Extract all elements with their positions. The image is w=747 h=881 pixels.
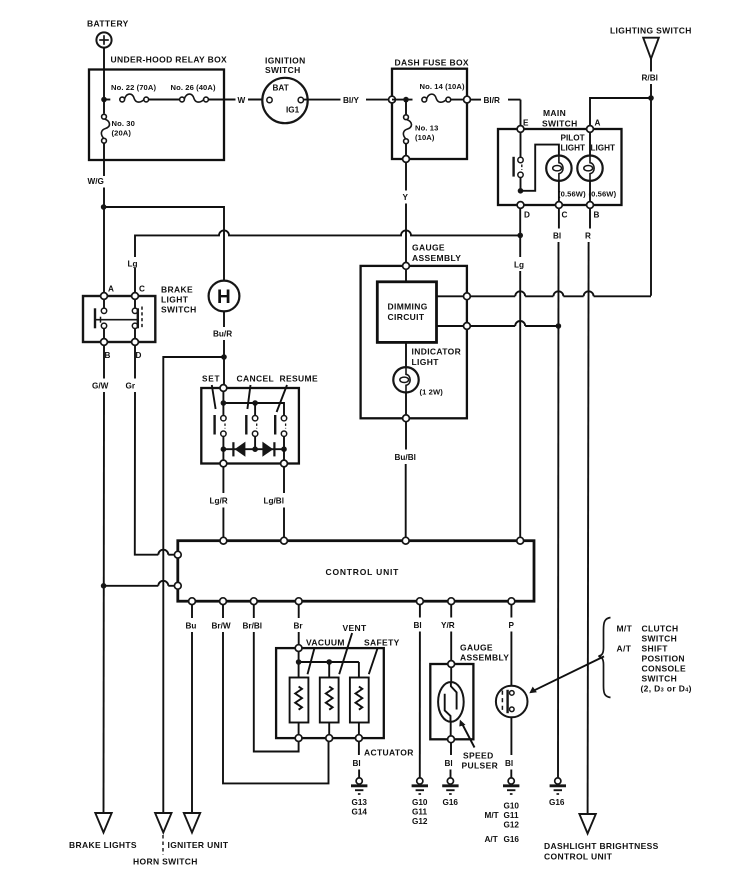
svg-text:C: C bbox=[562, 211, 568, 220]
wire fuse22 to fuse26 bbox=[149, 99, 180, 101]
svg-text:SWITCH: SWITCH bbox=[642, 674, 678, 684]
svg-text:Bu/Bl: Bu/Bl bbox=[395, 453, 416, 462]
terminal brake B bbox=[101, 339, 108, 346]
label VENT with leader bbox=[339, 623, 367, 674]
terminal control unit bottom P bbox=[508, 598, 515, 605]
svg-text:Y: Y bbox=[403, 193, 409, 202]
svg-text:DASH FUSE BOX: DASH FUSE BOX bbox=[395, 58, 469, 68]
svg-text:G12: G12 bbox=[412, 817, 428, 826]
svg-text:Br/W: Br/W bbox=[212, 622, 231, 631]
svg-text:B: B bbox=[105, 351, 111, 360]
wire set dot to bottom terminal bbox=[222, 449, 224, 463]
svg-text:G10: G10 bbox=[412, 798, 428, 807]
svg-text:CIRCUIT: CIRCUIT bbox=[388, 312, 425, 322]
terminal control unit top Lg/Bl bbox=[281, 537, 288, 544]
svg-text:No. 14 (10A): No. 14 (10A) bbox=[420, 82, 465, 91]
svg-text:Br/Bl: Br/Bl bbox=[243, 622, 263, 631]
svg-text:H: H bbox=[217, 287, 231, 308]
svg-text:GAUGE: GAUGE bbox=[460, 643, 493, 653]
terminal D bbox=[517, 202, 524, 209]
terminal control unit bottom Y/R bbox=[448, 598, 455, 605]
wire resume dot to bottom terminal bbox=[283, 449, 285, 463]
wire Bu to igniter unit bbox=[186, 605, 197, 814]
svg-text:ASSEMBLY: ASSEMBLY bbox=[460, 653, 509, 663]
svg-text:G14: G14 bbox=[352, 808, 368, 817]
svg-text:CANCEL: CANCEL bbox=[237, 374, 275, 384]
svg-text:LIGHT: LIGHT bbox=[161, 295, 189, 305]
node fuse13/14 junction bbox=[403, 97, 409, 103]
diode bus wire bbox=[223, 448, 284, 450]
node Bu/R junction to horn switch line bbox=[221, 354, 227, 360]
ground G10 G11 G12 (control unit Bl) bbox=[412, 778, 428, 826]
vent solenoid coil bbox=[320, 678, 339, 739]
svg-text:LIGHT: LIGHT bbox=[412, 357, 440, 367]
node Bl junction with dimmer wire bbox=[556, 323, 562, 329]
leader SET bbox=[212, 385, 216, 409]
brake light switch link bar bbox=[95, 319, 138, 321]
CANCEL contact bbox=[246, 403, 258, 449]
wire indicator bulb to bottom terminal bbox=[405, 393, 407, 419]
svg-text:BRAKE: BRAKE bbox=[161, 285, 193, 295]
svg-text:UNDER-HOOD RELAY BOX: UNDER-HOOD RELAY BOX bbox=[111, 55, 228, 65]
svg-text:A: A bbox=[108, 285, 114, 294]
control unit box bbox=[178, 541, 534, 602]
dash fuse box bbox=[392, 58, 469, 160]
wire Br/Bl to actuator vacuum valve bbox=[243, 605, 299, 752]
wire Bl clutch switch to ground bbox=[505, 717, 513, 778]
svg-text:CONSOLE: CONSOLE bbox=[642, 664, 686, 674]
wire Bl speed pulser to ground G16 bbox=[445, 743, 453, 778]
brace for clutch/shift switch note bbox=[599, 618, 611, 698]
svg-text:G12: G12 bbox=[504, 821, 520, 830]
main switch box bbox=[498, 108, 622, 220]
terminal IG1 bbox=[298, 97, 303, 102]
terminal B bbox=[587, 202, 594, 209]
terminal gauge assembly top bbox=[403, 263, 410, 270]
terminal control unit bottom Bu bbox=[189, 598, 196, 605]
terminal control unit top Lg bbox=[517, 537, 524, 544]
terminal dash fuse box right bbox=[464, 96, 471, 103]
node G/W junction to control unit bbox=[101, 583, 107, 589]
light bulb (0.56W) bbox=[577, 129, 616, 199]
brake light switch bbox=[83, 285, 197, 361]
wire to fuse 14 bbox=[392, 99, 413, 101]
svg-text:Bl: Bl bbox=[553, 232, 561, 241]
brake light switch internal A-B contact bbox=[95, 296, 107, 342]
wire horn feed from W/G line bbox=[104, 207, 224, 281]
wire battery to relay box feed bbox=[103, 48, 105, 100]
terminal gauge assembly bottom bbox=[403, 415, 410, 422]
gauge assembly box (speed pulser) bbox=[430, 643, 509, 740]
node actuator bus vacuum bbox=[296, 659, 302, 665]
terminal cruise bottom left bbox=[220, 460, 227, 467]
svg-text:Lg: Lg bbox=[128, 260, 138, 269]
svg-text:RESUME: RESUME bbox=[280, 374, 318, 384]
svg-text:A: A bbox=[595, 119, 601, 128]
svg-text:G11: G11 bbox=[504, 811, 519, 820]
wire junction to main switch A bbox=[590, 98, 651, 126]
diode D2 bbox=[262, 442, 274, 457]
wire Bl safety coil to ground G13/G14 bbox=[353, 742, 361, 778]
wire Br/W to actuator vent valve bbox=[212, 605, 329, 784]
svg-text:No. 30: No. 30 bbox=[112, 119, 135, 128]
terminal control unit left Gr bbox=[174, 551, 181, 558]
node battery feed junction bbox=[101, 97, 107, 103]
terminal control unit top Bu/Bl bbox=[402, 537, 409, 544]
node R/Bl junction to A bbox=[648, 95, 654, 101]
leader arrow brace to clutch switch bbox=[529, 656, 604, 693]
svg-text:D: D bbox=[136, 351, 142, 360]
svg-text:BAT: BAT bbox=[273, 84, 289, 93]
svg-text:SWITCH: SWITCH bbox=[161, 305, 197, 315]
wire Lg/R cruise to control unit bbox=[210, 467, 228, 541]
terminal E bbox=[517, 126, 524, 133]
terminal dash fuse box bottom bbox=[403, 156, 410, 163]
terminal cruise switch top bbox=[220, 385, 227, 392]
fuse No.13 (10A) bbox=[403, 100, 438, 159]
svg-text:SWITCH: SWITCH bbox=[542, 119, 578, 129]
terminal control unit left G/W bbox=[174, 582, 181, 589]
clutch switch / shift position switch circle bbox=[496, 686, 528, 718]
svg-text:M/T: M/T bbox=[485, 811, 499, 820]
svg-text:LIGHTING SWITCH: LIGHTING SWITCH bbox=[610, 26, 692, 36]
pilot light bulb (0.56W) bbox=[546, 134, 586, 199]
label SPEED PULSER with arrow leader bbox=[459, 720, 498, 771]
svg-text:VENT: VENT bbox=[343, 623, 368, 633]
node diode bus resume bbox=[281, 446, 287, 452]
terminal brake D bbox=[132, 339, 139, 346]
svg-text:G16: G16 bbox=[504, 835, 520, 844]
safety solenoid coil bbox=[350, 678, 369, 739]
wire internal junction to pilot bulb bbox=[521, 145, 559, 191]
svg-text:SPEED: SPEED bbox=[463, 751, 494, 761]
terminal C bbox=[556, 202, 563, 209]
svg-text:Lg: Lg bbox=[514, 261, 524, 270]
terminal cruise bottom right bbox=[281, 460, 288, 467]
svg-text:LIGHT: LIGHT bbox=[591, 144, 616, 153]
svg-text:Bl: Bl bbox=[505, 759, 513, 768]
svg-text:PILOT: PILOT bbox=[561, 134, 585, 143]
wire dimmer out 2 to Bl junction with hop bbox=[470, 321, 558, 326]
fuse No.14 (10A) bbox=[420, 82, 465, 102]
leader CANCEL bbox=[247, 385, 250, 409]
svg-text:R: R bbox=[585, 232, 591, 241]
wire fuse14 to right edge bbox=[451, 99, 467, 101]
gauge assembly box (instrument cluster) bbox=[361, 243, 467, 419]
actuator internal bus bbox=[299, 652, 359, 678]
svg-text:LIGHT: LIGHT bbox=[561, 144, 586, 153]
svg-text:No. 13: No. 13 bbox=[415, 124, 438, 133]
wire Gr brake switch D down to control unit bbox=[126, 345, 178, 554]
ground G16 (main switch Bl) bbox=[549, 778, 566, 807]
note text M/T clutch switch A/T shift position console switch bbox=[617, 624, 692, 694]
svg-text:Bl: Bl bbox=[353, 759, 361, 768]
svg-text:E: E bbox=[523, 119, 529, 128]
vacuum solenoid coil bbox=[290, 678, 309, 739]
svg-text:P: P bbox=[509, 621, 515, 630]
node bus cancel bbox=[252, 400, 258, 406]
terminal actuator bottom safety bbox=[356, 735, 363, 742]
terminal dash fuse box left bbox=[389, 96, 396, 103]
ground G13 G14 bbox=[351, 778, 367, 817]
ground G10 G11 G12 / G16 (clutch switch) bbox=[485, 778, 520, 844]
lighting switch bbox=[610, 26, 692, 59]
diode D1 bbox=[233, 442, 245, 457]
svg-text:C: C bbox=[139, 285, 145, 294]
label Lg on brake switch drop bbox=[126, 257, 143, 269]
terminal speed pulser top bbox=[448, 661, 455, 668]
svg-text:MAIN: MAIN bbox=[543, 108, 566, 118]
svg-text:DIMMING: DIMMING bbox=[388, 302, 428, 312]
svg-text:IG1: IG1 bbox=[286, 106, 300, 115]
svg-text:POSITION: POSITION bbox=[642, 654, 685, 664]
node diode bus set bbox=[221, 446, 227, 452]
terminal brake C bbox=[132, 293, 139, 300]
wire dimming to indicator bulb bbox=[405, 342, 407, 367]
wire Br to actuator bbox=[294, 605, 304, 646]
svg-text:CONTROL UNIT: CONTROL UNIT bbox=[544, 852, 613, 862]
svg-text:G13: G13 bbox=[352, 798, 368, 807]
wire Lg from D down to control unit bbox=[514, 208, 524, 540]
wire top terminal to internal bus bbox=[222, 391, 224, 403]
dimming circuit box bbox=[377, 282, 436, 343]
horn symbol H bbox=[209, 281, 240, 312]
svg-text:Br: Br bbox=[294, 622, 304, 631]
svg-text:Bl/Y: Bl/Y bbox=[343, 96, 359, 105]
ignition switch IG1 bbox=[262, 56, 307, 124]
wire Y terminal into dimming circuit bbox=[405, 266, 407, 282]
wire Bu/R horn to cruise switch bbox=[213, 311, 232, 388]
terminal actuator bottom vent bbox=[326, 735, 333, 742]
svg-text:SAFETY: SAFETY bbox=[364, 638, 400, 648]
wire W/G relay box down to brake light switch A bbox=[88, 143, 105, 293]
svg-text:(0.56W): (0.56W) bbox=[589, 190, 617, 199]
terminal BAT bbox=[267, 97, 272, 102]
svg-text:(2, D3 or D4): (2, D3 or D4) bbox=[641, 684, 692, 694]
svg-text:Gr: Gr bbox=[126, 382, 136, 391]
svg-text:GAUGE: GAUGE bbox=[412, 243, 445, 253]
under-hood relay box bbox=[89, 55, 227, 161]
svg-text:G16: G16 bbox=[549, 798, 565, 807]
node D junction with Lg rail bbox=[517, 233, 523, 239]
terminal control unit bottom Br/Bl bbox=[250, 598, 257, 605]
svg-text:Bu: Bu bbox=[186, 622, 197, 631]
wire dimmer output 2 to gauge edge bbox=[437, 325, 467, 327]
svg-text:ACTUATOR: ACTUATOR bbox=[364, 748, 414, 758]
brake light switch internal C-D contact bbox=[132, 296, 142, 342]
arrow brake lights bbox=[69, 813, 137, 850]
wire P to clutch switch bbox=[509, 605, 515, 686]
wire R from B down to dashlight brightness control unit bbox=[585, 208, 591, 814]
svg-text:BRAKE LIGHTS: BRAKE LIGHTS bbox=[69, 840, 137, 850]
terminal control unit bottom Br/W bbox=[220, 598, 227, 605]
svg-text:CLUTCH: CLUTCH bbox=[642, 624, 679, 634]
wire dimmer output 1 to gauge edge bbox=[437, 295, 467, 297]
wire G/W junction to control unit left bbox=[104, 581, 178, 586]
wire junction to fuse 22 bbox=[104, 99, 110, 101]
svg-text:Bl: Bl bbox=[414, 621, 422, 630]
svg-text:VACUUM: VACUUM bbox=[306, 638, 345, 648]
main switch internal contact set bbox=[514, 129, 524, 191]
leader RESUME bbox=[277, 385, 287, 412]
wire junction to horn switch drop bbox=[163, 357, 224, 813]
arrow horn switch bbox=[133, 813, 198, 867]
node W/G to horn feed bbox=[101, 204, 107, 210]
svg-text:HORN SWITCH: HORN SWITCH bbox=[133, 857, 198, 867]
svg-text:No. 26 (40A): No. 26 (40A) bbox=[171, 83, 216, 92]
wire Y/R to speed pulser bbox=[441, 605, 455, 665]
actuator box bbox=[276, 648, 414, 757]
wire Bl/R dash fuse to main switch E bbox=[470, 96, 520, 126]
node bus set bbox=[221, 400, 227, 406]
node diode bus cancel bbox=[252, 446, 258, 452]
svg-text:W: W bbox=[238, 96, 246, 105]
svg-text:Y/R: Y/R bbox=[441, 621, 455, 630]
svg-text:PULSER: PULSER bbox=[462, 761, 499, 771]
wire light bulb to B bbox=[589, 181, 591, 202]
Lg rail horizontal wire with hops over horn feed and Y wire bbox=[135, 230, 520, 292]
svg-text:No. 22 (70A): No. 22 (70A) bbox=[111, 83, 156, 92]
svg-text:SET: SET bbox=[202, 375, 220, 384]
wire Bl from C down to ground G16 bbox=[553, 208, 561, 777]
fuse No.30 (20A) bbox=[101, 100, 134, 144]
terminal actuator top bbox=[295, 645, 302, 652]
svg-text:CONTROL UNIT: CONTROL UNIT bbox=[326, 567, 400, 577]
terminal dimmer out 2 bbox=[464, 323, 471, 330]
svg-text:W/G: W/G bbox=[88, 177, 104, 186]
svg-text:R/Bl: R/Bl bbox=[642, 74, 658, 83]
svg-text:D: D bbox=[524, 211, 530, 220]
node main switch internal junction bbox=[518, 188, 524, 194]
svg-text:B: B bbox=[594, 211, 600, 220]
SET contact bbox=[215, 403, 226, 449]
svg-text:G16: G16 bbox=[443, 798, 459, 807]
svg-text:Bl/R: Bl/R bbox=[484, 96, 500, 105]
svg-text:SWITCH: SWITCH bbox=[265, 65, 301, 75]
terminal actuator bottom vacuum bbox=[295, 735, 302, 742]
node actuator bus vent bbox=[326, 659, 332, 665]
terminal control unit top Lg/R bbox=[220, 537, 227, 544]
svg-text:IGNITION: IGNITION bbox=[265, 56, 306, 66]
terminal control unit bottom Br bbox=[295, 598, 302, 605]
terminal dimmer out 1 bbox=[464, 293, 471, 300]
fuse No.26 (40A) bbox=[171, 83, 216, 102]
svg-text:G10: G10 bbox=[504, 802, 520, 811]
svg-text:A/T: A/T bbox=[485, 835, 498, 844]
terminal speed pulser bottom bbox=[448, 736, 455, 743]
arrow dashlight brightness control unit bbox=[544, 814, 659, 862]
wire pilot bulb to C bbox=[558, 181, 560, 202]
fuse No.22 (70A) bbox=[111, 83, 156, 102]
wire Bl/Y ignition to dash fuse box bbox=[304, 96, 389, 105]
ground G16 (speed pulser) bbox=[442, 778, 458, 807]
terminal brake A bbox=[101, 293, 108, 300]
svg-text:INDICATOR: INDICATOR bbox=[412, 347, 462, 357]
label SAFETY with leader bbox=[364, 638, 400, 675]
speed pulser bbox=[438, 667, 464, 739]
wire Bl to ground G10/G11/G12 bbox=[414, 605, 422, 778]
RESUME contact bbox=[275, 415, 286, 449]
svg-text:ASSEMBLY: ASSEMBLY bbox=[412, 253, 461, 263]
wire Y dash fuse to Lg rail bbox=[403, 162, 409, 266]
svg-text:Bl: Bl bbox=[445, 759, 453, 768]
svg-text:Lg/Bl: Lg/Bl bbox=[264, 497, 284, 506]
svg-text:IGNITER UNIT: IGNITER UNIT bbox=[168, 840, 229, 850]
terminal A bbox=[587, 126, 594, 133]
wire Lg/Bl cruise to control unit bbox=[264, 467, 285, 541]
arrow igniter unit bbox=[168, 813, 229, 850]
svg-text:(1 2W): (1 2W) bbox=[420, 388, 444, 397]
wire G/W brake switch B down to brake lights bbox=[92, 345, 109, 813]
svg-text:M/T: M/T bbox=[617, 624, 633, 634]
svg-text:SHIFT: SHIFT bbox=[642, 644, 669, 654]
svg-text:(20A): (20A) bbox=[112, 129, 132, 138]
cruise control SET/CANCEL/RESUME switch box bbox=[201, 374, 318, 464]
indicator light bulb (1.2W) bbox=[393, 347, 461, 397]
svg-text:Lg/R: Lg/R bbox=[210, 497, 228, 506]
wire R/Bl lighting switch down bbox=[642, 59, 658, 296]
svg-text:A/T: A/T bbox=[617, 644, 632, 654]
wire Bu/Bl gauge assembly to control unit bbox=[395, 422, 416, 541]
internal bus wire bbox=[223, 403, 284, 415]
svg-text:G11: G11 bbox=[412, 808, 427, 817]
wire dimmer out 1 to R/Bl with hops bbox=[470, 291, 651, 296]
wire W from relay box to ignition switch bbox=[208, 96, 266, 105]
svg-text:SWITCH: SWITCH bbox=[642, 634, 678, 644]
svg-text:BATTERY: BATTERY bbox=[87, 19, 129, 29]
svg-text:(10A): (10A) bbox=[415, 133, 435, 142]
battery bbox=[87, 19, 129, 48]
svg-text:DASHLIGHT BRIGHTNESS: DASHLIGHT BRIGHTNESS bbox=[544, 841, 659, 851]
svg-text:Bu/R: Bu/R bbox=[213, 330, 232, 339]
label VACUUM with leader bbox=[306, 638, 345, 675]
svg-text:(0.56W): (0.56W) bbox=[558, 190, 586, 199]
terminal control unit bottom Bl bbox=[417, 598, 424, 605]
svg-text:G/W: G/W bbox=[92, 382, 109, 391]
